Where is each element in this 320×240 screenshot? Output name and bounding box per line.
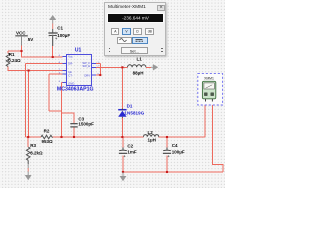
resistor R1 [6, 51, 21, 67]
wire DR vertical down to rail [25, 64, 27, 138]
multimeter window [104, 2, 166, 56]
U1 pin names [68, 55, 90, 86]
wire C4 top lead [166, 137, 168, 148]
ground above C1 [49, 15, 56, 29]
U1 left pin stubs [63, 57, 96, 83]
multimeter XMM1 icon [198, 74, 223, 105]
ground below output rail [120, 172, 127, 181]
svg-text:0.24Ω: 0.24Ω [8, 58, 21, 63]
resistor R3 [26, 143, 43, 164]
svg-text:1500pF: 1500pF [78, 122, 94, 127]
wire C2 top lead [122, 137, 124, 148]
svg-text:GND: GND [68, 81, 74, 85]
op-amp U1 box [57, 47, 100, 92]
svg-text:DRV: DRV [84, 73, 90, 77]
svg-text:R3: R3 [30, 143, 36, 148]
svg-text:5V: 5V [28, 37, 34, 42]
svg-text:Vcc: Vcc [68, 55, 73, 59]
output rail middle section [53, 136, 144, 138]
output rail right section [159, 136, 206, 138]
inductor L1 [128, 57, 146, 76]
svg-text:953Ω: 953Ω [42, 139, 54, 144]
capacitor C3 [70, 117, 94, 127]
svg-text:4: 4 [59, 81, 61, 83]
wire R1 top to VCC junction [8, 50, 22, 52]
svg-text:XMM1: XMM1 [204, 76, 214, 80]
wire C3 top link [62, 113, 75, 123]
ground below R3 [25, 164, 32, 180]
ground right of L1 [151, 64, 158, 70]
wire SWC pin row [91, 63, 100, 65]
svg-text:88µH: 88µH [133, 70, 144, 75]
wire C2 bottom to ground rail [122, 156, 124, 173]
wire CT pin row [49, 73, 62, 75]
svg-text:C1: C1 [57, 26, 63, 31]
wire GND pin stub [62, 82, 63, 84]
wire SWE row to L1 [91, 66, 127, 68]
svg-text:8.2kΩ: 8.2kΩ [30, 150, 43, 155]
junction dots [20, 50, 168, 173]
wire XMM1 plus probe [204, 102, 206, 138]
svg-text:L1: L1 [137, 57, 143, 62]
wire VCC stem red part [22, 46, 63, 58]
svg-text:C2: C2 [127, 144, 133, 149]
resistor R2 [41, 128, 53, 144]
output rail left section [26, 136, 41, 138]
svg-text:VCC: VCC [16, 31, 26, 36]
svg-text:DR-: DR- [68, 62, 73, 66]
svg-text:1µH: 1µH [148, 138, 156, 143]
inductor L2 [144, 130, 159, 143]
VCC symbol [15, 31, 33, 46]
svg-text:1N5819G: 1N5819G [124, 110, 144, 115]
U1 right pin stubs [91, 63, 95, 65]
wire DR pin row [26, 63, 63, 65]
svg-text:MC34063AP1G: MC34063AP1G [57, 86, 94, 92]
wire CT vertical [48, 74, 50, 111]
svg-text:SW_E: SW_E [82, 64, 90, 68]
wire C3 bottom [73, 127, 75, 137]
wire R3 top lead [27, 137, 29, 147]
svg-text:U1: U1 [75, 47, 82, 53]
wire XMM1 minus probe [213, 102, 223, 173]
U1 pin numbers [59, 55, 100, 83]
wire D1 vertical from SW node [121, 67, 123, 108]
svg-text:C4: C4 [172, 143, 178, 148]
svg-text:R1: R1 [9, 52, 15, 57]
capacitor C4 [163, 143, 185, 157]
svg-text:100µF: 100µF [172, 150, 185, 155]
svg-text:D1: D1 [127, 104, 133, 109]
wire C4 bottom to ground rail [166, 156, 168, 173]
diode D1 [118, 104, 145, 118]
wire L1 out to ground arrow [146, 66, 151, 68]
ground rail bottom [123, 171, 223, 173]
svg-text:L2: L2 [148, 130, 154, 135]
wire C1 bottom lead [52, 46, 54, 57]
svg-text:R2: R2 [44, 128, 50, 133]
wire SWC vertical [99, 64, 101, 76]
svg-text:Ipk: Ipk [68, 70, 72, 74]
wire Ipk vertical down to rail [28, 71, 30, 138]
svg-text:100µF: 100µF [57, 33, 70, 38]
wire D1 anode down to output rail [121, 118, 123, 138]
svg-text:1mF: 1mF [127, 150, 137, 155]
wire GND vertical to rail [61, 83, 63, 138]
capacitor C2 [119, 144, 137, 158]
svg-text:CT-: CT- [68, 73, 72, 77]
capacitor C1 [48, 26, 70, 46]
wire DRV pin row [91, 74, 100, 76]
wire CT horizontal to C3 [49, 110, 62, 112]
wire R1 bottom stub [8, 67, 63, 71]
